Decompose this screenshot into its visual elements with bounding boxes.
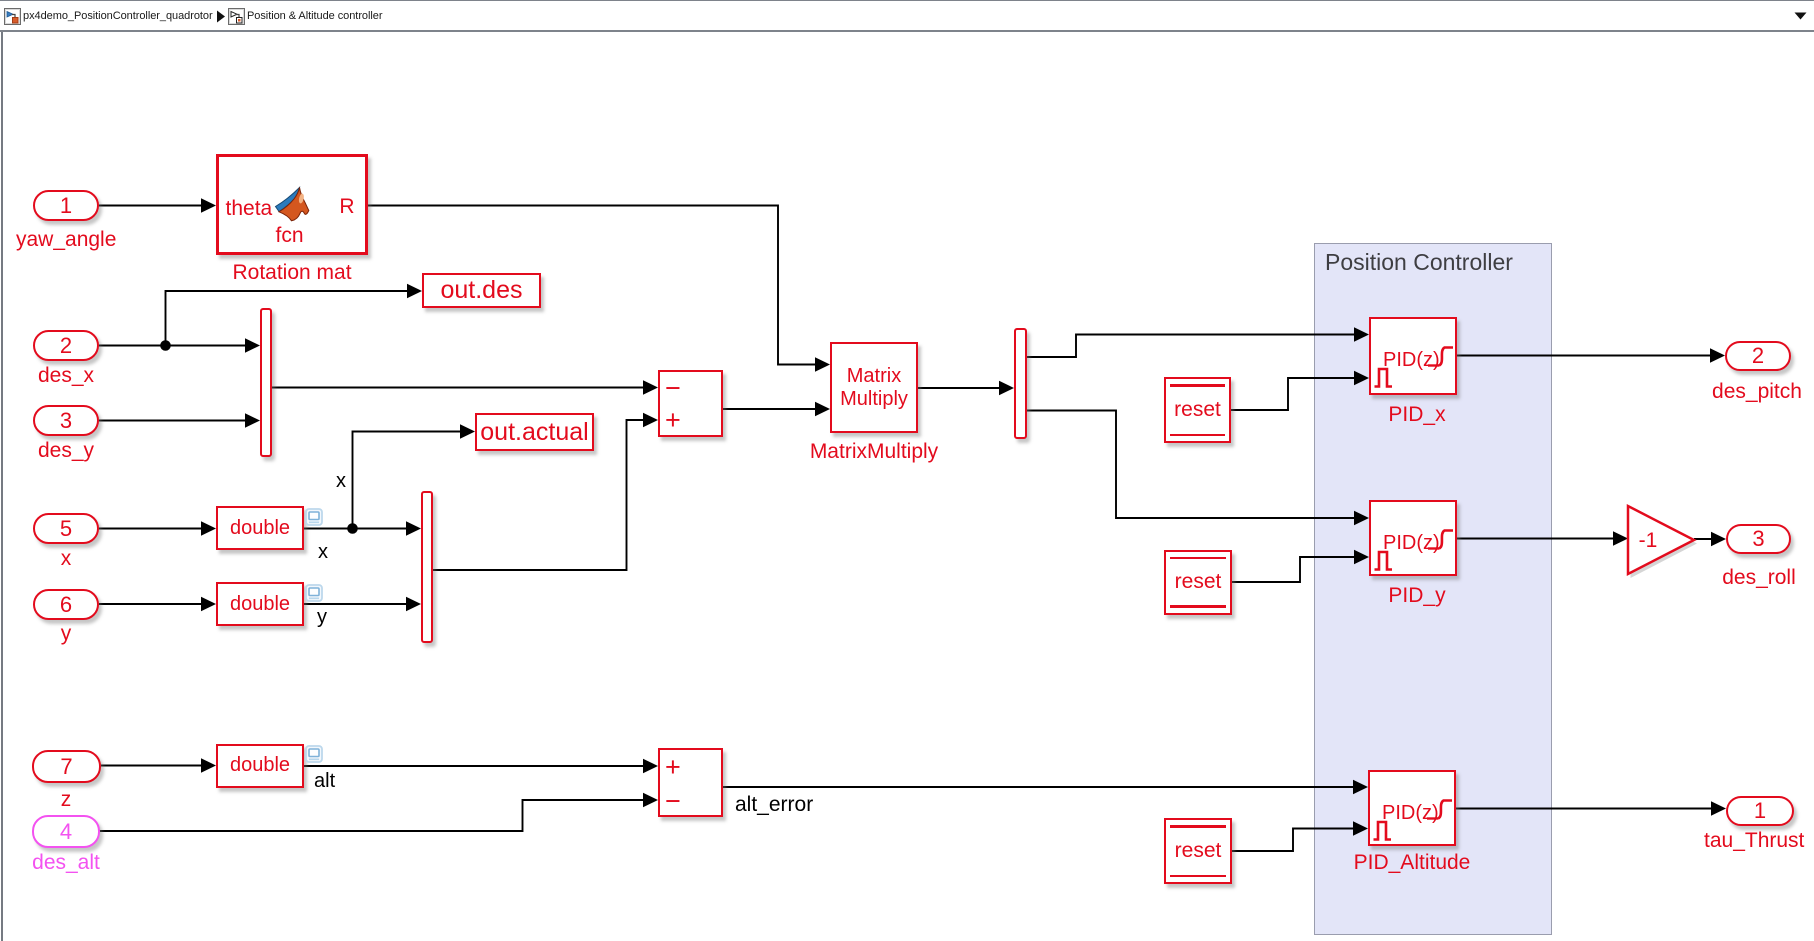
double3 logging badge [305,745,324,764]
wire port5 to double1 [99,528,202,530]
inport 2 [33,330,99,361]
sum1 plus sign [665,405,681,436]
arrowhead into PID_y in2 [1354,550,1369,565]
sum1 minus sign [665,373,681,404]
double1 out signal label x [318,541,328,564]
junction dot at port2 branch [160,340,171,351]
out.actual block [475,413,594,451]
MATLAB membrane logo [274,186,310,222]
Mux2 [421,491,433,643]
sum2 minus sign [665,786,681,817]
arrowhead into des_pitch port [1710,348,1725,363]
wire double1 to Mux2 in1 [304,528,407,530]
arrowhead into Sum2 minus [643,793,658,808]
wire port7 to double3 [101,765,202,767]
PID_Altitude block [1368,770,1456,846]
wire reset1 to PID_x in2 [1231,378,1355,410]
reset block 2 [1164,550,1232,615]
arrowhead into Mux2 in1 [406,521,421,536]
double2 out signal label y [317,606,327,629]
inport 1 [33,190,99,221]
outport 1 label tau_Thrust [1704,830,1804,852]
inport 1 label yaw_angle [16,229,116,251]
arrowhead into Matrix Multiply in2 [815,402,830,417]
wire port6 to double2 [99,603,202,605]
inport 6 label y [16,623,116,645]
arrowhead into Sum2 plus [643,759,658,774]
inport 4 label des_alt [16,852,116,874]
wire branch junction to out.des [166,291,409,346]
double3 out signal label alt [314,770,335,793]
breadcrumb icon 1 (subsystem icon) [4,8,21,25]
pin label theta [226,197,273,221]
outport 3 label des_roll [1709,567,1809,589]
wire port2 to Mux1 in1 [99,345,246,347]
arrowhead into Sum1 plus [643,413,658,428]
Matrix Multiply block [830,342,918,433]
inport 5 label x [16,548,116,570]
arrowhead into Mux1 in2 [245,413,260,428]
Mux1 [260,308,272,457]
canvas left frame edge [1,32,3,941]
reset block 1 [1164,377,1231,443]
wire PID_x out to des_pitch [1456,355,1711,357]
arrowhead into out.actual [460,424,475,439]
svg-text:PID(z): PID(z) [1382,802,1439,824]
double2 block [216,582,304,626]
arrowhead into Demux [999,381,1014,396]
reset block 3 [1164,818,1232,884]
wire Mux2 out to Sum1 plus [433,420,644,570]
Sum1 block [658,370,723,437]
arrowhead into Matrix Multiply in1 [815,357,830,372]
wire PID_Altitude out to tau_Thrust [1456,808,1712,810]
arrowhead into double1 [201,521,216,536]
Position Controller area [1314,243,1552,935]
MatrixMultiply label [804,441,944,463]
MATLAB function block Rotation mat [216,154,368,255]
wire double3 to Sum2 plus [304,765,644,767]
wire double2 to Mux2 in2 [304,603,407,605]
inport 2 label des_x [16,365,116,387]
PID_x label [1347,404,1487,426]
inport 7 [32,750,101,783]
arrowhead into PID_Altitude in1 [1353,780,1368,795]
PID_y label [1347,585,1487,607]
Demux [1014,328,1027,439]
inport 7 label z [16,789,116,811]
wire R output to Matrix Multiply in1 [367,206,816,365]
arrowhead into des_roll port [1711,532,1726,547]
outport 3 des_roll [1726,524,1791,554]
pin label R [339,195,354,219]
wire port1 to Rotation mat [99,205,202,207]
arrowhead into Sum1 minus [643,380,658,395]
PID_Altitude label [1342,852,1482,874]
gain -1 triangle [1628,506,1694,574]
breadcrumb dropdown arrow [1794,12,1807,20]
arrowhead into tau_Thrust port [1711,801,1726,816]
svg-text:-1: -1 [1639,529,1658,552]
inport 3 label des_y [16,440,116,462]
arrowhead into PID_x in1 [1354,327,1369,342]
wire port4 to Sum2 minus [99,800,644,831]
gain -1 triangle shadow [1631,510,1698,578]
wire reset3 to PID_Altitude in2 [1232,829,1354,852]
outport 2 label des_pitch [1707,381,1807,403]
wire port3 to Mux1 in2 [99,420,246,422]
wire Demux out2 to PID_y in1 [1026,411,1355,519]
svg-text:PID(z): PID(z) [1383,349,1440,371]
wire Sum2 out (alt_error) to PID_Altitude in1 [723,786,1354,788]
junction dot at x branch [347,523,358,534]
wire Mux1 out to Sum1 minus [271,387,644,389]
svg-text:PID(z): PID(z) [1383,532,1440,554]
wire Sum1 out to Matrix Multiply in2 [723,408,816,410]
wire gain out to des_roll [1694,538,1712,540]
arrowhead into gain -1 [1613,531,1628,546]
branch signal label x [336,470,346,493]
arrowhead into double2 [201,597,216,612]
breadcrumb text 1 [23,10,213,22]
wire Matrix Multiply out to Demux [918,387,1000,389]
double2 logging badge [305,584,324,603]
wire PID_y out to gain [1456,538,1614,540]
Rotation mat label [222,262,362,284]
double3 block (alt) [216,744,304,788]
outport 2 des_pitch [1725,341,1791,371]
PID_y block [1369,500,1457,576]
out.des block [422,273,541,308]
arrowhead into Mux1 in1 [245,338,260,353]
double1 logging badge [305,508,324,527]
Position Controller title [1325,249,1513,276]
inport 4 (magenta) [32,815,100,848]
arrowhead into out.des [407,284,422,299]
arrowhead into PID_x in2 [1354,371,1369,386]
outport 1 tau_Thrust [1726,796,1794,826]
breadcrumb bar [0,0,1814,32]
sum2 plus sign [665,752,681,783]
arrowhead into Rotation mat [201,198,216,213]
arrowhead into double3 [201,758,216,773]
fcn label [219,224,361,248]
breadcrumb icon 2 (subsystem icon) [228,8,245,25]
breadcrumb text 2 [247,10,382,22]
wire reset2 to PID_y in2 [1232,557,1355,582]
inport 5 [33,513,99,544]
PID_x block [1369,317,1457,395]
wire Demux out1 to PID_x in1 [1026,335,1355,358]
arrowhead into PID_y in1 [1354,511,1369,526]
wire branch junction x to out.actual [353,432,462,529]
arrowhead into PID_Altitude in2 [1353,821,1368,836]
inport 6 [33,589,99,620]
Sum2 block [658,748,723,817]
inport 3 [33,405,99,436]
double1 block [216,506,304,550]
breadcrumb separator arrow [216,10,226,23]
signal label alt_error [735,793,813,817]
arrowhead into Mux2 in2 [406,597,421,612]
